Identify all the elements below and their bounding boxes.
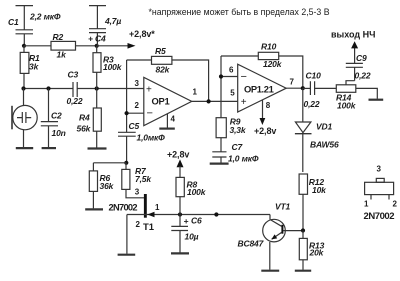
svg-text:120k: 120k (263, 59, 283, 69)
node A junction (22, 44, 26, 48)
resistor R1 (20, 46, 40, 89)
main horizontal wire (T1 drain to VT1) (127, 214, 270, 216)
svg-text:5: 5 (230, 88, 235, 97)
svg-text:3k: 3k (29, 62, 40, 72)
node: R3/R4 junction (95, 86, 99, 90)
ground (C6) (171, 252, 189, 254)
svg-text:6: 6 (229, 66, 234, 75)
svg-text:R2: R2 (53, 32, 64, 42)
ground (R6) (85, 208, 103, 210)
ground (C2) (42, 147, 56, 149)
svg-text:OP1.21: OP1.21 (244, 83, 274, 94)
svg-text:7: 7 (290, 78, 295, 87)
capacitor C2 (41, 89, 66, 148)
+2,8v arrow (R8) (167, 150, 189, 178)
svg-text:3: 3 (135, 188, 140, 197)
node: R8/C6 junction (178, 212, 182, 216)
node: R6/R7 junction (124, 161, 128, 165)
wire to R5 (127, 59, 152, 61)
diode VD1 (BAW56) (295, 88, 339, 172)
transistor T1 (2N7002) gate bar (144, 194, 147, 218)
svg-text:T1: T1 (143, 222, 155, 233)
capacitor C7 (212, 142, 259, 164)
OP1.21 pin8 supply arrow (254, 100, 276, 136)
trimmer R14 (336, 81, 377, 111)
svg-text:1: 1 (193, 88, 198, 97)
OP1.21 pin6 wire (221, 76, 238, 78)
svg-text:1k: 1k (57, 50, 68, 60)
svg-text:C10: C10 (306, 71, 322, 81)
OP1 pin4 stem (166, 114, 168, 128)
node: pin2 junction (125, 111, 129, 115)
resistor R6 (89, 163, 114, 209)
svg-text:+ C4: + C4 (88, 34, 106, 44)
electret microphone (12, 89, 37, 148)
svg-text:8: 8 (266, 101, 271, 110)
capacitor C9 (346, 48, 371, 81)
svg-text:56k: 56k (77, 124, 92, 134)
resistor R3 (93, 46, 123, 89)
op-amp OP1.21 (229, 64, 295, 112)
node B junction (95, 44, 99, 48)
svg-text:VD1: VD1 (316, 122, 333, 132)
svg-text:+: + (146, 85, 152, 96)
svg-text:C3: C3 (68, 70, 79, 80)
capacitor C10 (304, 71, 337, 110)
svg-text:2: 2 (393, 200, 398, 209)
node: junction on wire (214, 212, 218, 216)
wire R2 to node B (76, 45, 97, 47)
resistor R5 (152, 46, 172, 74)
svg-text:C1: C1 (8, 17, 19, 27)
svg-text:100k: 100k (187, 187, 207, 197)
svg-text:3: 3 (377, 165, 382, 174)
svg-text:OP1: OP1 (152, 96, 170, 107)
input wire to OP1 pin3 (24, 88, 144, 90)
ground (R13) (295, 270, 311, 272)
resistor R7 (122, 163, 153, 198)
capacitor C3 (67, 70, 83, 107)
svg-text:0,22: 0,22 (355, 71, 371, 81)
svg-text:1: 1 (364, 200, 369, 209)
svg-text:20k: 20k (309, 248, 325, 258)
svg-text:+2,8v: +2,8v (167, 150, 189, 160)
wire junction to R6 (93, 162, 126, 164)
svg-text:82k: 82k (156, 64, 171, 74)
svg-text:R4: R4 (79, 112, 90, 122)
node: C2 junction (46, 86, 50, 90)
wire OP1 output to OP1.21 pin5 (192, 100, 238, 102)
wire to C10 (303, 87, 311, 89)
resistor R9 (216, 117, 247, 152)
node: pin6 junction (219, 74, 223, 78)
svg-text:4: 4 (171, 115, 176, 124)
svg-text:+: + (184, 216, 189, 226)
ground (T1 source) (118, 254, 136, 256)
svg-text:1,0мкФ: 1,0мкФ (137, 133, 166, 143)
svg-text:3,3k: 3,3k (230, 125, 247, 135)
output arrow выход НЧ (331, 30, 375, 49)
svg-text:выход НЧ: выход НЧ (331, 30, 375, 40)
svg-text:2N7002: 2N7002 (109, 203, 138, 213)
svg-text:+2,8v*: +2,8v* (129, 29, 155, 39)
transistor VT1 (BC847) (238, 202, 304, 270)
capacitor C4 (88, 6, 121, 46)
svg-text:10n: 10n (52, 128, 66, 138)
node: R1/mic junction (21, 86, 25, 90)
node: output junction (301, 86, 305, 90)
svg-text:−: − (147, 107, 153, 119)
svg-text:10k: 10k (312, 185, 327, 195)
wire R5 to OP1 output (172, 60, 209, 101)
svg-text:+2,8v: +2,8v (254, 126, 276, 136)
svg-text:BAW56: BAW56 (310, 140, 339, 150)
svg-text:2: 2 (136, 220, 141, 229)
resistor R13 (299, 231, 324, 270)
resistor R4 (77, 89, 102, 148)
2N7002 package drawing (364, 165, 398, 223)
svg-text:4,7µ: 4,7µ (104, 16, 121, 26)
ground (R14) (369, 99, 384, 101)
node: OP1 output junction (207, 99, 211, 103)
svg-text:100k: 100k (103, 62, 123, 72)
ground (OP1 pin4) (159, 128, 175, 130)
svg-text:VT1: VT1 (275, 202, 291, 212)
feedback node vertical (pin2/C5/R5) (126, 60, 128, 132)
+2,8v supply arrow (97, 29, 156, 49)
ground (mic) (16, 147, 33, 149)
node: VT1 base junction (301, 228, 305, 232)
svg-text:36k: 36k (100, 181, 115, 191)
svg-text:*напряжение может быть в преде: *напряжение может быть в пределах 2,5-3 … (149, 7, 330, 17)
svg-text:C2: C2 (51, 111, 62, 121)
svg-text:+: + (241, 97, 247, 108)
wire node A to R2 (24, 45, 51, 47)
capacitor C6 (171, 215, 202, 253)
T1 source down to ground (126, 215, 128, 254)
svg-text:C6: C6 (191, 216, 202, 226)
resistor R12 (299, 174, 327, 231)
resistor R2 (51, 32, 76, 60)
svg-text:0,22: 0,22 (67, 96, 83, 106)
OP1.21 output wire (286, 87, 303, 89)
ground (R4) (88, 147, 107, 149)
svg-text:3: 3 (135, 79, 140, 88)
svg-text:7,5k: 7,5k (135, 174, 152, 184)
capacitor C5 (118, 121, 165, 163)
wire OP1 pin2 (127, 112, 144, 114)
svg-text:R10: R10 (261, 42, 277, 52)
svg-text:2,2 мкФ: 2,2 мкФ (29, 11, 61, 21)
svg-text:C9: C9 (356, 53, 367, 63)
resistor R8 (176, 177, 207, 214)
svg-text:C7: C7 (232, 142, 244, 152)
svg-text:C5: C5 (129, 121, 140, 131)
svg-text:1,0 мкФ: 1,0 мкФ (228, 154, 259, 164)
op-amp OP1 (135, 77, 198, 125)
svg-text:−: − (241, 71, 247, 83)
svg-text:1: 1 (155, 203, 160, 212)
R9/pin6 vertical (220, 56, 222, 118)
svg-text:2: 2 (135, 101, 140, 110)
capacitor C1 (8, 6, 61, 46)
svg-text:R5: R5 (155, 46, 166, 56)
svg-text:0,22: 0,22 (304, 99, 320, 109)
svg-text:BC847: BC847 (238, 239, 265, 249)
ground (C7) (210, 163, 229, 165)
ground (VT1 emitter) (261, 270, 279, 272)
svg-text:2N7002: 2N7002 (364, 211, 395, 222)
T1 drain arrowhead (147, 212, 154, 218)
svg-text:10µ: 10µ (185, 232, 199, 242)
resistor R10 (221, 42, 303, 89)
svg-text:100k: 100k (337, 101, 357, 111)
